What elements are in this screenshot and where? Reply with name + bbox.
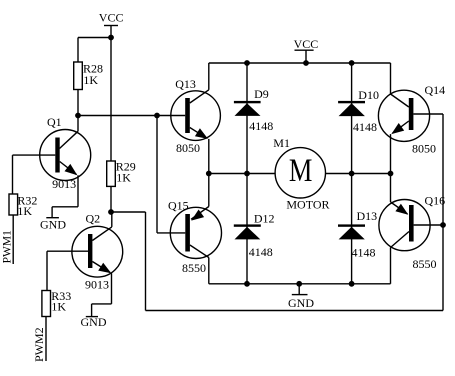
svg-text:4148: 4148: [353, 120, 377, 134]
svg-text:Q14: Q14: [425, 83, 446, 97]
svg-text:Q2: Q2: [86, 211, 101, 225]
svg-text:8550: 8550: [182, 261, 206, 275]
svg-text:9013: 9013: [85, 278, 109, 292]
svg-text:1K: 1K: [83, 73, 98, 87]
svg-text:9013: 9013: [52, 177, 76, 191]
svg-text:4148: 4148: [249, 119, 273, 133]
svg-text:VCC: VCC: [99, 11, 124, 25]
svg-text:1K: 1K: [51, 300, 66, 314]
svg-text:D12: D12: [254, 212, 275, 226]
svg-text:8550: 8550: [413, 257, 437, 271]
svg-text:4148: 4148: [249, 245, 273, 259]
svg-text:Q16: Q16: [425, 194, 446, 208]
svg-text:Q1: Q1: [47, 115, 62, 129]
svg-text:GND: GND: [40, 218, 66, 232]
svg-text:D9: D9: [254, 87, 269, 101]
svg-text:Q13: Q13: [175, 77, 196, 91]
svg-text:4148: 4148: [352, 245, 376, 259]
svg-text:8050: 8050: [412, 141, 436, 155]
svg-text:D10: D10: [358, 88, 379, 102]
svg-text:1K: 1K: [17, 204, 32, 218]
svg-text:D13: D13: [357, 209, 378, 223]
svg-text:PWM2: PWM2: [32, 327, 46, 362]
svg-text:M: M: [289, 153, 313, 189]
svg-text:M1: M1: [273, 136, 290, 150]
svg-text:VCC: VCC: [294, 37, 319, 51]
svg-text:8050: 8050: [176, 141, 200, 155]
svg-text:GND: GND: [288, 296, 314, 310]
svg-text:MOTOR: MOTOR: [286, 198, 329, 212]
svg-text:1K: 1K: [116, 170, 131, 184]
svg-text:PWM1: PWM1: [1, 230, 13, 263]
svg-text:GND: GND: [81, 315, 107, 329]
svg-text:Q15: Q15: [168, 198, 189, 212]
